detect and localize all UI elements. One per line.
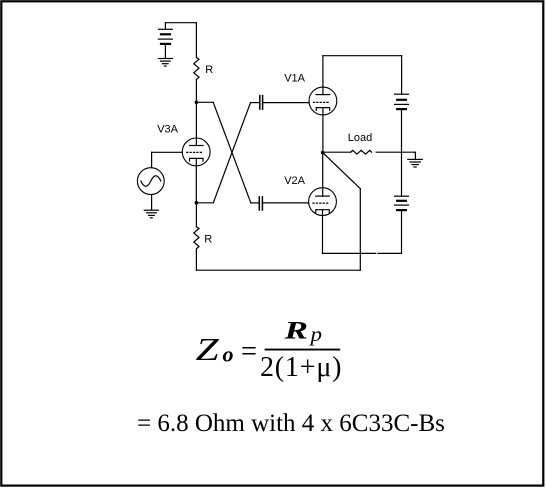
svg-text:V1A: V1A [284, 73, 305, 85]
svg-text:Z: Z [196, 331, 221, 367]
triode V3A [182, 138, 210, 203]
svg-text:= 6.8 Ohm with 4 x 6C33C-Bs: = 6.8 Ohm with 4 x 6C33C-Bs [137, 410, 445, 437]
wire [165, 22, 196, 24]
resistor R1 [194, 52, 199, 80]
wire (V2A plate lead) [322, 153, 324, 197]
resistor Load [351, 150, 372, 154]
wire [196, 269, 360, 271]
wire [195, 23, 197, 53]
wire (cross diagonal to V2A coupling cap) [213, 102, 251, 203]
svg-text:R: R [205, 64, 213, 76]
node B [195, 201, 199, 205]
wire [263, 102, 309, 104]
wire (V1A plate lead) [322, 56, 324, 95]
node A [195, 101, 199, 105]
svg-text:o: o [223, 342, 234, 367]
svg-text:p: p [308, 322, 322, 346]
wire [195, 80, 197, 102]
wire (V3A grid lead) [152, 151, 183, 153]
wire [376, 151, 415, 153]
triode V2A [309, 188, 337, 216]
wire (V3A plate lead) [195, 102, 197, 145]
wire [323, 55, 402, 57]
battery B2 [395, 94, 409, 152]
ground [144, 210, 158, 218]
battery B3 [395, 196, 409, 253]
resistor R2 [194, 227, 199, 251]
wire [195, 251, 197, 270]
wire [323, 252, 376, 254]
svg-text:2(1+μ): 2(1+μ) [260, 352, 342, 383]
node C [321, 151, 325, 155]
sine source VG1 [137, 168, 164, 195]
wire [323, 151, 351, 153]
wire [195, 203, 197, 227]
wire [359, 189, 361, 271]
wire [251, 202, 259, 204]
wire [151, 195, 153, 210]
triode V1A [309, 87, 337, 115]
wire [263, 202, 309, 204]
wire (V1A cathode lead) [322, 108, 324, 153]
svg-text:Load: Load [348, 132, 372, 144]
wire [401, 152, 403, 196]
svg-text:=: = [241, 334, 257, 367]
svg-text:R: R [283, 318, 308, 345]
capacitor C1 [260, 96, 263, 110]
wire [196, 202, 213, 204]
wire [401, 56, 403, 94]
svg-text:V3A: V3A [157, 124, 178, 136]
formula Zo = Rp / 2(1+mu) [196, 318, 343, 384]
svg-text:R: R [204, 234, 212, 246]
wire (V2A cathode lead) [322, 210, 324, 254]
wire [414, 152, 416, 159]
battery B1 [158, 23, 172, 58]
ground [158, 59, 172, 67]
wire (diagonal from node C) [323, 153, 361, 189]
wire (cross diagonal to V1A coupling cap) [213, 103, 250, 203]
wire [378, 252, 402, 254]
wire (sine source to grid) [151, 152, 153, 167]
wire [196, 101, 213, 103]
capacitor C2 [259, 197, 262, 210]
ground [408, 159, 423, 167]
svg-text:V2A: V2A [284, 175, 305, 187]
wire [251, 102, 260, 104]
